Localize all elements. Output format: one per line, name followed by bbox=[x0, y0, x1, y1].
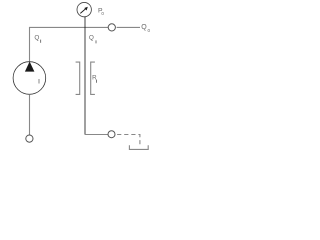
wire: pump bottom to drain port bbox=[29, 94, 31, 135]
wire: output stub bbox=[117, 26, 140, 28]
svg-text:Q: Q bbox=[141, 24, 147, 31]
wire: center vertical through valve, to bottom rail bbox=[84, 27, 86, 134]
pump tick mark bbox=[38, 79, 40, 84]
wire: pump up to top rail bbox=[30, 27, 109, 61]
svg-text:0: 0 bbox=[101, 11, 104, 16]
svg-text:Q: Q bbox=[89, 34, 94, 41]
valve RL right bracket bbox=[91, 62, 95, 94]
wire: gauge stem bbox=[84, 17, 86, 28]
svg-text:Q: Q bbox=[34, 35, 39, 42]
pressure gauge body bbox=[77, 2, 91, 16]
port circle bottom-left bbox=[26, 135, 33, 142]
valve RL left bracket bbox=[76, 62, 80, 94]
pump flow triangle bbox=[25, 62, 35, 72]
dashed wire to tank bbox=[117, 135, 140, 147]
tank (sump) bbox=[129, 145, 148, 149]
pump circle bbox=[13, 62, 46, 95]
port circle top-right bbox=[108, 24, 115, 31]
gauge needle bbox=[80, 7, 88, 14]
port circle bottom-middle bbox=[108, 131, 115, 138]
wire: bottom rail bbox=[85, 134, 109, 136]
svg-text:0: 0 bbox=[148, 28, 151, 33]
